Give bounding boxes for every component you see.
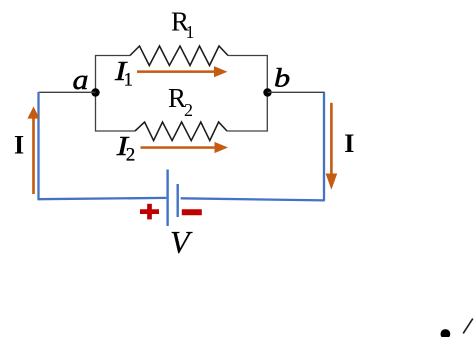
svg-text:I: I xyxy=(14,131,24,160)
resistor R2 xyxy=(135,122,227,141)
svg-text:b: b xyxy=(274,64,290,93)
wire bottom right (blue) xyxy=(181,198,325,200)
wire right vertical (blue) xyxy=(323,93,325,201)
battery V positive plate (long) xyxy=(166,170,168,227)
resistor R1 xyxy=(130,46,228,66)
annotation dot (bottom right) xyxy=(441,329,451,337)
svg-text:V: V xyxy=(170,224,193,260)
current arrow I down (right) xyxy=(326,103,338,190)
svg-text:1: 1 xyxy=(124,69,134,90)
wire node a to left xyxy=(39,91,96,93)
svg-text:1: 1 xyxy=(186,22,195,42)
svg-text:2: 2 xyxy=(184,100,193,120)
wire top-right stub (R1 to node b rail) xyxy=(228,56,267,93)
wire node b to right xyxy=(268,91,325,93)
svg-text:I: I xyxy=(344,129,354,158)
wire top-left stub (node a rail to R1) xyxy=(96,56,131,93)
annotation slash (bottom right) xyxy=(463,319,473,334)
battery plus sign xyxy=(140,204,159,220)
current arrow I up (left) xyxy=(27,107,39,195)
battery V negative plate (short) xyxy=(176,184,178,217)
current arrow I1 xyxy=(137,66,227,77)
wire bottom left (blue) xyxy=(38,198,167,199)
node a xyxy=(91,88,99,96)
wire bottom-left stub (node a rail to R2) xyxy=(96,92,136,131)
battery minus sign xyxy=(182,209,202,215)
node b xyxy=(263,88,271,96)
wire bottom-right stub (R2 to node b rail) xyxy=(227,92,267,131)
svg-text:2: 2 xyxy=(126,145,136,166)
svg-text:a: a xyxy=(73,65,89,96)
wire left vertical (blue) xyxy=(37,92,39,200)
current arrow I2 xyxy=(141,142,229,153)
